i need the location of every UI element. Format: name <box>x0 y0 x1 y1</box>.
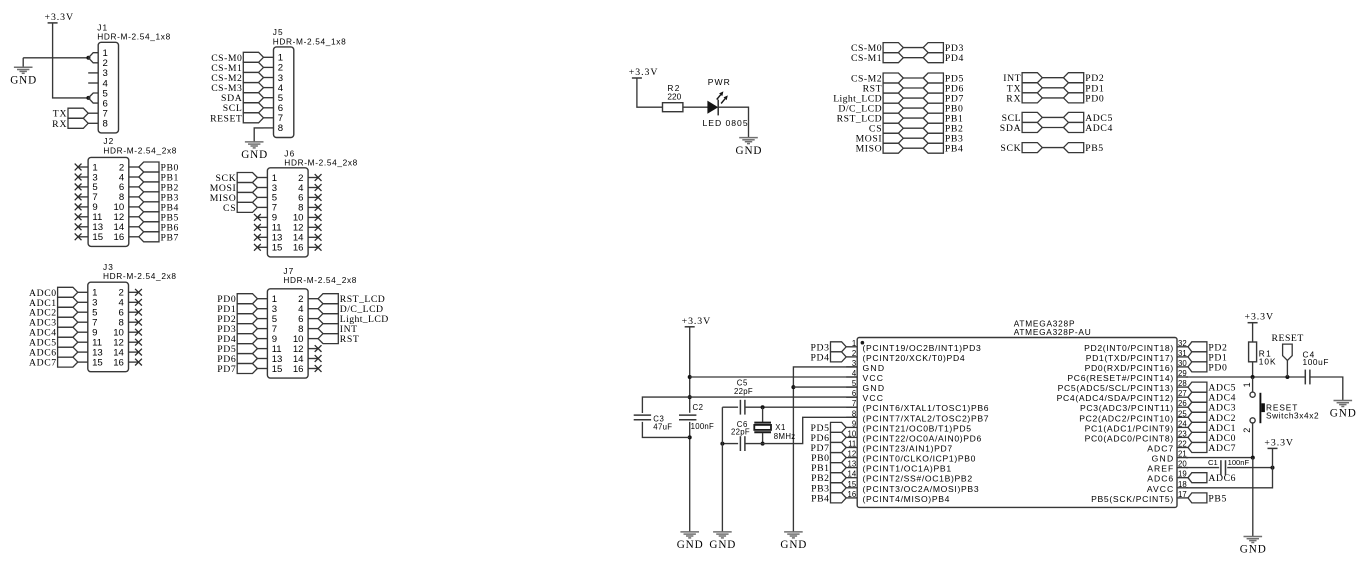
net label Light_LCD <box>833 93 903 105</box>
J3 pin 2 stub <box>129 291 139 293</box>
wire to C3 top <box>642 397 689 413</box>
J3 pin 12 stub <box>129 341 139 343</box>
net label PB4 at U1 pin 16 <box>811 493 846 505</box>
switch SW1 contact 2 <box>1250 418 1255 423</box>
net label RX <box>1006 93 1042 105</box>
net label PD6 <box>923 83 963 95</box>
svg-text:PC6(RESET#/PCINT14): PC6(RESET#/PCINT14) <box>1067 373 1173 383</box>
wire CS-M1 to PD4 <box>903 57 923 59</box>
junction XTAL1 <box>761 405 765 409</box>
J7 pin 9 stub <box>257 338 267 340</box>
no-connect J6 pin 4 <box>315 184 322 191</box>
J2 pin 4 stub <box>129 176 139 178</box>
net label ADC7 at U1 pin 22 <box>1188 443 1236 455</box>
wire J5 pin 8 to ground <box>254 128 263 142</box>
wire C1 to +3.3V node <box>1227 467 1272 469</box>
J3 pin 15 stub <box>78 361 88 363</box>
net label RESET <box>1272 333 1304 360</box>
J3 pin 13 stub <box>78 351 88 353</box>
net label PB1 <box>923 113 963 125</box>
J6 pin 4 stub <box>308 187 318 189</box>
J7 pin 14 stub <box>308 358 318 360</box>
J7 pin 16 stub <box>308 368 318 370</box>
svg-text:GND: GND <box>677 539 703 551</box>
svg-text:PC1(ADC1/PCINT9): PC1(ADC1/PCINT9) <box>1085 423 1174 433</box>
J7 pin 7 stub <box>257 328 267 330</box>
J6 pin 11 stub <box>257 226 267 228</box>
wire R2 to LED <box>683 106 708 108</box>
svg-text:PB4: PB4 <box>945 144 963 155</box>
J2 pin 14 stub <box>129 226 139 228</box>
svg-text:(PCINT23/AIN1)PD7: (PCINT23/AIN1)PD7 <box>863 444 953 454</box>
connector J7 outline <box>267 289 308 378</box>
capacitor C1 <box>1221 460 1226 475</box>
J3 pin 1 stub <box>78 291 88 293</box>
net label ADC5 at U1 pin 28 <box>1188 382 1236 394</box>
wire U1 pin 5 GND <box>793 386 857 388</box>
svg-text:ADC7: ADC7 <box>29 358 56 369</box>
net label D/C_LCD <box>838 103 903 115</box>
net label PB2 <box>923 123 963 135</box>
net label PD7 <box>923 93 963 105</box>
net label PD0 at U1 pin 30 <box>1188 362 1227 374</box>
net label Light_LCD at J7 pin 6 <box>318 314 388 326</box>
net label PB3 <box>923 133 963 145</box>
svg-text:PD4: PD4 <box>945 53 964 64</box>
ground at C4 <box>1330 401 1356 420</box>
net label ADC4 <box>1064 123 1113 135</box>
no-connect J7 pin 16 <box>315 365 322 372</box>
svg-text:22pF: 22pF <box>731 427 750 436</box>
svg-text:PC2(ADC2/PCINT10): PC2(ADC2/PCINT10) <box>1079 413 1173 423</box>
svg-text:GND: GND <box>1330 408 1356 420</box>
wire RST to PD6 <box>903 87 923 89</box>
net label RST_LCD at J7 pin 2 <box>318 294 385 306</box>
svg-text:C2: C2 <box>693 403 704 412</box>
wire D/C_LCD to PB0 <box>903 107 923 109</box>
J3 pin 10 stub <box>129 331 139 333</box>
connector J7 pin numbers <box>272 294 304 375</box>
net label PD4 at U1 pin 2 <box>811 352 847 364</box>
svg-text:X1: X1 <box>775 423 785 432</box>
no-connect J6 pin 10 <box>315 214 322 221</box>
wire CS to PB2 <box>903 127 923 129</box>
wire XTAL1 to crystal <box>762 407 764 422</box>
svg-text:PC4(ADC4/SDA/PCINT12): PC4(ADC4/SDA/PCINT12) <box>1057 393 1174 403</box>
wire LED to ground <box>719 107 749 137</box>
no-connect J6 pin 12 <box>315 224 322 231</box>
J3 pin 8 stub <box>129 321 139 323</box>
J5 pin 5 stub <box>264 97 274 99</box>
svg-text:1: 1 <box>1242 382 1252 387</box>
net label PB1 at U1 pin 13 <box>811 463 846 475</box>
svg-text:(PCINT21/OC0B/T1)PD5: (PCINT21/OC0B/T1)PD5 <box>863 423 972 433</box>
no-connect J6 pin 14 <box>315 234 322 241</box>
wire U1 pin 21 GND <box>1186 457 1253 459</box>
J7 pin 13 stub <box>257 358 267 360</box>
svg-text:(PCINT20/XCK/T0)PD4: (PCINT20/XCK/T0)PD4 <box>863 353 965 363</box>
ground at U1 GND <box>780 532 806 551</box>
no-connect J6 pin 13 <box>254 234 261 241</box>
svg-text:(PCINT19/OC2B/INT1)PD3: (PCINT19/OC2B/INT1)PD3 <box>863 343 982 353</box>
wire U1 pin 3 GND down <box>793 367 857 532</box>
J2 pin 8 stub <box>129 196 139 198</box>
J7 pin 15 stub <box>257 368 267 370</box>
svg-text:HDR-M-2.54_1x8: HDR-M-2.54_1x8 <box>97 32 170 42</box>
net label ADC4 at U1 pin 27 <box>1188 392 1236 404</box>
wire SCK to PB5 <box>1042 147 1063 149</box>
J2 pin 1 stub <box>78 166 88 168</box>
LED D1 PWR symbol <box>707 91 727 115</box>
wire C5 left <box>722 406 738 408</box>
J2 pin 13 stub <box>78 226 88 228</box>
net label RESET at J5 pin 7 <box>210 113 263 125</box>
connector J5 pin numbers <box>278 53 284 135</box>
junction VCC pin6 <box>688 395 692 399</box>
junction reset at RESET label <box>1285 375 1289 379</box>
svg-text:(PCINT1/OC1A)PB1: (PCINT1/OC1A)PB1 <box>863 464 952 474</box>
J3 pin 16 stub <box>129 361 139 363</box>
svg-text:SDA: SDA <box>1000 123 1021 134</box>
J3 pin 3 stub <box>78 301 88 303</box>
net label MISO <box>856 143 904 155</box>
svg-text:VCC: VCC <box>863 393 884 403</box>
net label RST at J7 pin 10 <box>318 334 359 346</box>
wire GND drop at J1 <box>22 58 24 67</box>
U1 left pin numbers <box>848 339 857 499</box>
wire VCC to U1 pin 6 <box>690 396 858 398</box>
svg-text:16: 16 <box>113 357 124 368</box>
wire C4 to ground <box>1310 377 1343 400</box>
junction AREF/AVCC +3.3V <box>1271 466 1275 470</box>
junction C2/C3 bottom <box>688 435 692 439</box>
svg-text:HDR-M-2.54_2x8: HDR-M-2.54_2x8 <box>283 275 356 285</box>
wire +3.3V to R2 <box>637 78 663 107</box>
net label INT <box>1003 73 1042 85</box>
J6 pin 8 stub <box>308 206 318 208</box>
net label TX <box>1007 83 1043 95</box>
J3 pin 11 stub <box>78 341 88 343</box>
net label PB4 <box>923 143 963 155</box>
J6 pin 1 stub <box>257 177 267 179</box>
svg-text:PB5: PB5 <box>1085 143 1103 154</box>
svg-text:ADC4: ADC4 <box>1085 123 1112 134</box>
svg-text:PD1(TXD/PCINT17): PD1(TXD/PCINT17) <box>1086 353 1174 363</box>
no-connect J6 pin 6 <box>315 194 322 201</box>
J5 pin 2 stub <box>264 66 274 68</box>
J2 pin 2 stub <box>129 166 139 168</box>
net label SCL <box>1002 112 1043 124</box>
svg-text:VCC: VCC <box>863 373 884 383</box>
no-connect J2 pin 11 <box>75 213 82 220</box>
crystal X1 <box>754 423 771 433</box>
capacitor C2 <box>679 415 696 420</box>
svg-text:GND: GND <box>863 383 885 393</box>
net label ADC0 at J3 pin 1 <box>29 287 78 299</box>
net label ADC3 at J3 pin 7 <box>29 317 78 329</box>
net label PD3 at U1 pin 1 <box>811 342 847 354</box>
wire C5/C6 ground leg down <box>721 407 723 531</box>
svg-text:15: 15 <box>92 357 103 368</box>
no-connect J2 pin 13 <box>75 223 82 230</box>
wire XTAL2 to U1 pin 8 <box>763 417 858 443</box>
svg-text:+3.3V: +3.3V <box>1264 437 1293 448</box>
svg-text:10K: 10K <box>1259 356 1276 366</box>
wire Light_LCD to PD7 <box>903 97 923 99</box>
net label PB6 at J2 pin 14 <box>139 222 179 234</box>
svg-text:47uF: 47uF <box>653 422 672 431</box>
no-connect J6 pin 15 <box>254 244 261 251</box>
svg-text:+3.3V: +3.3V <box>682 316 711 327</box>
J2 pin 16 stub <box>129 236 139 238</box>
net label D/C_LCD at J7 pin 4 <box>318 304 383 316</box>
wire R1 to reset net <box>1252 362 1254 377</box>
wire C6 left <box>722 443 738 445</box>
svg-text:CS: CS <box>223 203 236 214</box>
svg-text:PB5: PB5 <box>1208 493 1226 504</box>
J6 pin 7 stub <box>257 206 267 208</box>
net label ADC2 at U1 pin 25 <box>1188 412 1236 424</box>
no-connect J2 pin 1 <box>75 164 82 171</box>
svg-text:(PCINT0/CLKO/ICP1)PB0: (PCINT0/CLKO/ICP1)PB0 <box>863 454 976 464</box>
net label RST <box>863 83 904 95</box>
net label PD7 at U1 pin 11 <box>811 443 847 455</box>
wire TX to PD1 <box>1042 87 1063 89</box>
svg-text:8: 8 <box>103 119 108 130</box>
no-connect J7 pin 14 <box>315 355 322 362</box>
svg-text:100nF: 100nF <box>1228 458 1250 467</box>
connector J6 pin numbers <box>272 173 304 254</box>
net label ADC5 <box>1064 112 1113 124</box>
J1 pin 8 stub <box>88 122 98 124</box>
net label MISO at J6 pin 5 <box>210 192 258 204</box>
wire crystal to C6 row <box>762 433 764 444</box>
svg-text:GND: GND <box>1240 544 1266 556</box>
U1 pin 1 marker dot <box>861 341 865 345</box>
svg-text:ADC6: ADC6 <box>1147 474 1173 484</box>
wire C6 right <box>745 443 763 445</box>
J3 pin 4 stub <box>129 301 139 303</box>
net label PD2 at U1 pin 32 <box>1188 342 1227 354</box>
wire RST_LCD to PB1 <box>903 117 923 119</box>
svg-text:RX: RX <box>52 119 66 130</box>
svg-text:2: 2 <box>1242 428 1252 433</box>
wire +3.3V to J1 pins 5-6 <box>53 23 89 98</box>
net label PB5 at U1 pin 17 <box>1188 493 1226 505</box>
net label PD4 <box>923 53 963 64</box>
net label PB7 at J2 pin 16 <box>139 232 179 244</box>
net label PD5 <box>923 73 963 85</box>
capacitor C5 <box>740 400 745 415</box>
net label PD1 at J7 pin 3 <box>217 304 257 316</box>
net label PB3 at J2 pin 8 <box>139 192 179 204</box>
junction VCC pin4 <box>688 375 692 379</box>
J3 pin 6 stub <box>129 311 139 313</box>
connector J6 outline <box>267 168 308 257</box>
wire rail lower to ground <box>689 422 691 532</box>
J6 pin 15 stub <box>257 246 267 248</box>
net label PD5 at U1 pin 9 <box>811 422 847 434</box>
net label INT at J7 pin 8 <box>318 324 357 336</box>
net label PD6 at U1 pin 10 <box>811 432 847 444</box>
net label PB5 <box>1064 143 1104 155</box>
svg-text:GND: GND <box>241 149 267 161</box>
net label PB3 at U1 pin 15 <box>811 483 846 495</box>
svg-text:LED 0805: LED 0805 <box>703 118 748 128</box>
J6 pin 14 stub <box>308 236 318 238</box>
svg-text:15: 15 <box>272 243 283 254</box>
J3 pin 14 stub <box>129 351 139 353</box>
wire SDA to ADC4 <box>1042 127 1063 129</box>
svg-text:C1: C1 <box>1208 458 1218 467</box>
no-connect J2 pin 5 <box>75 184 82 191</box>
svg-text:RESET: RESET <box>210 113 242 124</box>
U1 right pin names <box>1057 343 1174 504</box>
no-connect J3 pin 2 <box>135 289 142 296</box>
connector J1 outline <box>98 42 118 133</box>
svg-text:GND: GND <box>863 363 885 373</box>
J6 pin 5 stub <box>257 196 267 198</box>
U1 left pin stubs <box>846 347 857 498</box>
svg-text:ADC7: ADC7 <box>1147 444 1173 454</box>
svg-text:RESET: RESET <box>1272 333 1304 344</box>
J6 pin 12 stub <box>308 226 318 228</box>
svg-text:PC3(ADC3/PCINT11): PC3(ADC3/PCINT11) <box>1080 403 1173 413</box>
no-connect J6 pin 2 <box>315 174 322 181</box>
power +3.3V at LED circuit <box>629 67 658 78</box>
J1 pin 4 stub <box>88 82 98 84</box>
wire SCL to ADC5 <box>1042 116 1063 118</box>
wire RX to PD0 <box>1042 97 1063 99</box>
J7 pin 4 stub <box>308 308 318 310</box>
svg-text:220: 220 <box>667 91 681 101</box>
net label ADC1 at U1 pin 24 <box>1188 422 1236 434</box>
no-connect J3 pin 4 <box>135 299 142 306</box>
net label MOSI <box>856 133 904 145</box>
svg-text:15: 15 <box>92 232 103 243</box>
svg-text:AREF: AREF <box>1147 464 1173 474</box>
connector J3 pin numbers <box>92 288 124 369</box>
svg-text:Switch3x4x2: Switch3x4x2 <box>1266 410 1319 420</box>
ground at J1 <box>10 67 36 86</box>
svg-text:GND: GND <box>709 539 735 551</box>
svg-text:PD0: PD0 <box>1085 93 1104 104</box>
connector J3 outline <box>88 282 129 372</box>
svg-text:GND: GND <box>780 539 806 551</box>
J2 pin 5 stub <box>78 186 88 188</box>
net label PD0 <box>1064 93 1104 105</box>
ground at J5 <box>241 142 267 161</box>
wire CS-M0 to PD3 <box>903 47 923 49</box>
connector J2 outline <box>88 157 129 246</box>
svg-text:PD0(RXD/PCINT16): PD0(RXD/PCINT16) <box>1085 363 1174 373</box>
wire node to U1 pin 18 AVCC <box>1186 468 1273 488</box>
svg-text:RST: RST <box>340 334 359 345</box>
J1 pin 3 stub <box>88 72 98 74</box>
J3 pin 5 stub <box>78 311 88 313</box>
J5 pin 6 stub <box>264 107 274 109</box>
svg-text:HDR-M-2.54_2x8: HDR-M-2.54_2x8 <box>103 146 176 156</box>
net label CS-M2 <box>851 73 903 85</box>
J2 pin 9 stub <box>78 206 88 208</box>
net label SDA at J5 pin 5 <box>221 93 264 105</box>
J2 pin 12 stub <box>129 216 139 218</box>
svg-text:HDR-M-2.54_2x8: HDR-M-2.54_2x8 <box>284 157 357 167</box>
J2 pin 6 stub <box>129 186 139 188</box>
net label PD2 at J7 pin 5 <box>217 314 257 326</box>
junction reset at R1 <box>1251 375 1255 379</box>
no-connect J6 pin 9 <box>254 214 261 221</box>
resistor R2 <box>663 103 683 112</box>
svg-text:HDR-M-2.54_1x8: HDR-M-2.54_1x8 <box>273 36 346 46</box>
wire GND to J1 pins 1-2 <box>23 57 88 59</box>
net label PB0 <box>923 103 963 115</box>
no-connect J3 pin 16 <box>135 359 142 366</box>
svg-text:AVCC: AVCC <box>1147 484 1173 494</box>
no-connect J6 pin 11 <box>254 224 261 231</box>
wire MISO to PB4 <box>903 147 923 149</box>
net label PD7 at J7 pin 15 <box>217 364 257 376</box>
svg-text:16: 16 <box>293 243 304 254</box>
J6 pin 3 stub <box>257 187 267 189</box>
wire CS-M2 to PD5 <box>903 77 923 79</box>
svg-text:HDR-M-2.54_2x8: HDR-M-2.54_2x8 <box>103 271 176 281</box>
J6 pin 6 stub <box>308 196 318 198</box>
svg-text:8: 8 <box>278 123 283 134</box>
U1 right pin stubs <box>1177 347 1188 498</box>
resistor R1 <box>1249 342 1257 362</box>
no-connect J6 pin 16 <box>315 244 322 251</box>
svg-text:MISO: MISO <box>856 144 882 155</box>
wire +3.3V to R1 <box>1252 323 1254 342</box>
net label SDA <box>1000 123 1043 135</box>
net label CS-M1 at J5 pin 2 <box>211 62 263 74</box>
svg-text:PC0(ADC0/PCINT8): PC0(ADC0/PCINT8) <box>1085 433 1174 443</box>
wire +3.3V to node <box>1272 448 1274 467</box>
svg-text:GND: GND <box>1152 454 1174 464</box>
svg-text:PD2(INT0/PCINT18): PD2(INT0/PCINT18) <box>1084 343 1173 353</box>
no-connect J6 pin 8 <box>315 204 322 211</box>
J6 pin 2 stub <box>308 177 318 179</box>
capacitor C3 <box>634 415 651 420</box>
switch SW1 actuator <box>1259 393 1261 423</box>
svg-text:RX: RX <box>1006 93 1020 104</box>
J6 pin 13 stub <box>257 236 267 238</box>
J5 pin 8 stub <box>264 127 274 129</box>
junction C5/C6 ground leg <box>720 442 724 446</box>
net label PB1 at J2 pin 4 <box>139 172 179 184</box>
J1 pin 7 stub <box>88 112 98 114</box>
J3 pin 9 stub <box>78 331 88 333</box>
svg-text:GND: GND <box>736 145 762 157</box>
net label SCK at J6 pin 1 <box>216 173 258 185</box>
svg-text:PB7: PB7 <box>161 232 179 243</box>
switch SW1 wire from reset net <box>1252 377 1254 392</box>
power +3.3V at R1 <box>1245 312 1274 323</box>
svg-text:(PCINT7/XTAL2/TOSC2)PB7: (PCINT7/XTAL2/TOSC2)PB7 <box>863 413 989 423</box>
net label SCL at J5 pin 6 <box>223 103 264 114</box>
connector J1 pin numbers <box>103 48 109 130</box>
J6 pin 10 stub <box>308 216 318 218</box>
no-connect J3 pin 8 <box>135 319 142 326</box>
svg-text:PD0: PD0 <box>1208 362 1227 373</box>
power +3.3V at J1 <box>45 12 74 23</box>
no-connect J7 pin 12 <box>315 345 322 352</box>
svg-text:PB4: PB4 <box>811 493 829 504</box>
capacitor C6 <box>740 436 745 451</box>
wire C3 bottom <box>642 422 689 438</box>
J5 pin 4 stub <box>264 87 274 89</box>
